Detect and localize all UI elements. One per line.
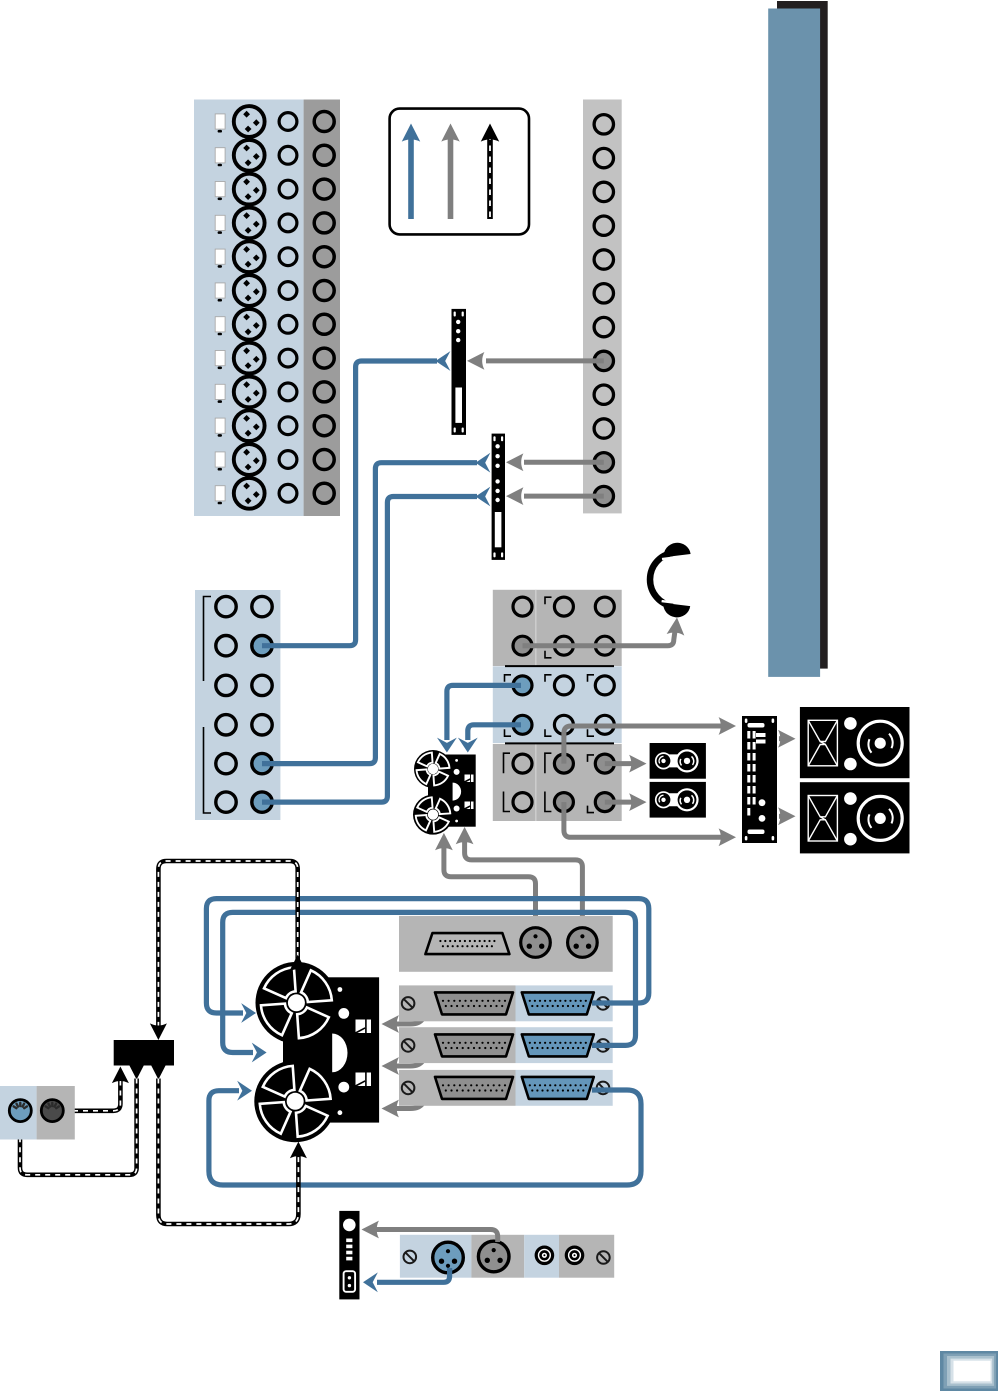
channel 2 insert jack [314,145,334,165]
channel 4 switch [215,215,225,234]
wire patch r5c2 to power amp [564,726,724,764]
patch jack r5c3 [595,754,614,773]
line driver unit 2 [492,434,505,560]
tape in DB25 row 2 [522,1034,594,1056]
channel 7 XLR mic input [234,309,265,340]
tape I/O row 3 gray panel [399,1070,516,1106]
channel 4 XLR mic input [234,208,265,239]
tape out DB25 row 3 [435,1077,513,1099]
main out DB25 [425,933,509,954]
channel input panel (blue) [194,100,304,517]
channel 11 XLR mic input [234,444,265,475]
bracket upper [204,597,212,682]
tape return jack r2c2 [252,636,272,656]
channel 6 XLR mic input [234,275,265,306]
tape in DB25 row 1 [522,992,594,1014]
patch jack r6c3 [595,793,614,812]
no-connection symbol row 3 right [597,1082,610,1095]
channel 1 line input jack [279,113,297,131]
group output column (gray) [583,100,622,514]
wire tape in row 3 from multitrack [209,1090,641,1185]
channel 8 insert jack [314,348,334,368]
headphones [650,541,693,619]
studio panel blue 1 [400,1235,472,1278]
channel 2 switch [215,148,225,167]
wire patch r2c1 to headphones [523,625,676,646]
tape return jack r6c2 [252,792,272,812]
wire group out 12 to line driver 2 [524,494,604,499]
wire mixdown deck to XLR out L [444,846,536,930]
channel 10 insert jack [314,416,334,436]
group output jack 1 [594,115,613,134]
patch jack r6c2 [554,793,573,812]
channel 8 line input jack [279,349,297,367]
small monitor speaker B [650,782,706,818]
channel 11 line input jack [279,451,297,469]
channel 5 line input jack [279,248,297,266]
sync line MIDI-in from DIN [63,1079,120,1111]
patch jack r4c3 [595,715,614,734]
channel 6 switch [215,283,225,302]
patch jack r6c1 [513,793,532,812]
wire patch r6c3 to monitor B [605,800,634,805]
channel 5 XLR mic input [234,241,265,272]
patch jack r3c1 [513,676,532,695]
wire patch r5c3 to monitor A [605,761,634,766]
wire group out 11 to line driver 2 [524,460,604,465]
sync line MIDI-out to DIN [128,1063,145,1080]
patch jack r1c2 [554,597,573,616]
channel 10 XLR mic input [234,410,265,441]
channel 5 switch [215,249,225,268]
line driver unit 1 [452,309,467,435]
tape return panel (blue) [195,590,280,820]
tape in DB25 row 3 [522,1077,594,1099]
wire mixdown deck to XLR out R [465,840,583,930]
wire line driver 1 to tape return r2 [262,361,437,646]
tape out DB25 row 2 [435,1034,513,1056]
channel 8 XLR mic input [234,343,265,374]
patch jack r1c1 [513,597,532,616]
sync line multitrack to MIDI interface [158,861,297,1027]
tape return jack r4c2 [252,715,272,735]
console side-panel (blue bar) [768,9,820,677]
channel 12 insert jack [314,483,334,503]
channel 1 XLR mic input [234,106,265,137]
tape I/O row 3 blue panel [516,1070,613,1106]
patch jack r2c3 [595,636,614,655]
wire tape out row 3 to multitrack [394,1095,458,1109]
small monitor speaker A [650,743,706,779]
studio panel gray 2 [559,1235,614,1278]
channel 9 insert jack [314,382,334,402]
channel 2 XLR mic input [234,140,265,171]
channel 10 line input jack [279,417,297,435]
tape return jack r1c2 [252,596,272,616]
studio RCA jack 2 [566,1247,582,1263]
channel 5 insert jack [314,247,334,267]
band separator line 2 [505,742,614,744]
sync line MIDI-thru to multitrack [150,1063,167,1080]
patch jack r5c1 [513,754,532,773]
tape I/O row 2 blue panel [516,1027,613,1063]
tape I/O row 1 blue panel [516,985,613,1021]
wire patch r6c2 to power amp [564,802,724,837]
channel 6 insert jack [314,281,334,301]
channel 3 line input jack [279,180,297,198]
tape I/O row 1 gray panel [399,985,516,1021]
patch jack r3c3 [595,676,614,695]
monitor patch panel bottom band (gray) [493,744,622,821]
wire line driver 2 to tape return r6 [262,497,477,803]
wire tape out row 2 to multitrack [394,1052,458,1066]
wire tape in row 1 from multitrack [206,899,648,1013]
channel 7 insert jack [314,314,334,334]
group output jack 10 [594,419,613,438]
channel 3 switch [215,182,225,201]
main out XLR left [521,928,551,958]
tape return jack r3c2 [252,675,272,695]
wire patch r4c1 to mixdown deck [468,725,521,740]
channel 1 switch [215,114,225,133]
channel 11 insert jack [314,450,334,470]
channel 7 line input jack [279,315,297,333]
tape I/O row 2 gray panel [399,1027,516,1063]
group output jack 9 [594,385,613,404]
MIDI DIN out (blue) [9,1100,31,1122]
wire tape in row 2 from multitrack [223,912,636,1052]
tape out DB25 row 1 [435,992,513,1014]
wire group out 8 to line driver 1 [486,358,604,363]
main speaker R [800,782,910,853]
channel 7 switch [215,317,225,336]
power amplifier (rack) [742,716,777,843]
main out XLR right [568,928,598,958]
no-connection symbol studio right [597,1251,610,1264]
channel 3 XLR mic input [234,174,265,205]
wire line driver 2 to tape return r5 [262,463,477,764]
wire amp to speaker R [779,814,783,819]
channel 12 XLR mic input [234,478,265,509]
tape return jack r5c2 [252,753,272,773]
group output jack 11 [594,453,613,472]
studio XLR female (blue) [433,1242,464,1273]
channel 3 insert jack [314,179,334,199]
group output jack 6 [594,284,613,303]
no-connection symbol row 2 right [597,1039,610,1052]
main speaker L [800,707,910,778]
no-connection symbol row 1 right [597,997,610,1010]
monitor patch panel top band (gray) [493,590,622,666]
channel 9 switch [215,384,225,403]
patch jack r1c3 [595,597,614,616]
tape return jack r6c1 [216,792,236,812]
studio panel blue 2 [524,1235,559,1278]
legend box [390,109,529,235]
mixdown deck (2-track reel recorder) [413,750,476,835]
page corner tab [940,1351,998,1391]
wire amp to speaker L [779,736,783,741]
main output panel (gray) [399,916,613,972]
legend gray arrow [448,136,454,219]
channel 2 line input jack [279,146,297,164]
wire studio XLR female to talkback unit [377,1268,450,1282]
channel 4 line input jack [279,214,297,232]
patch jack r5c2 [554,754,573,773]
no-connection symbol row 1 left [402,997,415,1010]
insert jack strip (gray) [304,100,340,517]
patch jack r3c2 [554,676,573,695]
no-connection symbol studio left [404,1251,417,1264]
patch jack r2c2 [554,636,573,655]
monitor patch panel middle band (blue) [493,666,622,743]
band separator line 1 [505,665,614,667]
patch corner marks [504,597,595,812]
channel 12 switch [215,486,225,505]
channel 9 XLR mic input [234,377,265,408]
patch jack r4c2 [554,715,573,734]
console side-panel shadow [777,1,828,669]
group output jack 3 [594,182,613,201]
channel 4 insert jack [314,213,334,233]
patch jack r2c1 [513,636,532,655]
group output jack 5 [594,250,613,269]
MIDI panel gray [37,1086,75,1140]
studio XLR male (gray) [478,1241,509,1272]
studio RCA jack 1 [536,1247,552,1263]
MIDI panel blue [0,1086,37,1140]
bracket lower [204,727,212,813]
MIDI DIN in (gray) [41,1100,63,1122]
studio panel gray 1 [471,1235,524,1278]
legend dashed sync arrow [487,136,493,219]
channel 10 switch [215,418,225,437]
no-connection symbol row 2 left [402,1039,415,1052]
MIDI interface box [114,1040,174,1066]
legend blue arrow [408,136,414,219]
patch jack r4c1 [513,715,532,734]
group output jack 7 [594,317,613,336]
tape return jack r1c1 [216,596,236,616]
channel 8 switch [215,351,225,370]
tape return jack r3c1 [216,675,236,695]
channel 9 line input jack [279,383,297,401]
channel 11 switch [215,452,225,471]
tape return jack r5c1 [216,753,236,773]
wire studio XLR male to talkback unit [374,1230,498,1243]
tape return jack r2c1 [216,636,236,656]
group output jack 2 [594,148,613,167]
tape return jack r4c1 [216,715,236,735]
channel 12 line input jack [279,484,297,502]
group output jack 4 [594,216,613,235]
no-connection symbol row 3 left [402,1082,415,1095]
multitrack reel recorder [254,962,379,1142]
wire patch r3c1 to mixdown deck [447,685,521,740]
group output jack 12 [594,486,613,505]
channel 1 insert jack [314,112,334,132]
talkback unit [339,1211,359,1300]
channel 6 line input jack [279,282,297,300]
group output jack 8 [594,351,613,370]
wire tape out row 1 to multitrack [394,1010,458,1024]
